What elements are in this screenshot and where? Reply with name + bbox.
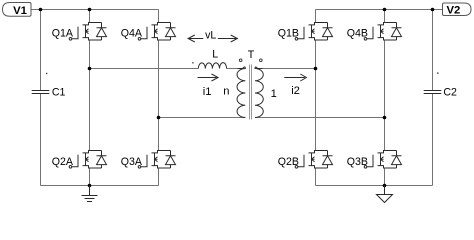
svg-text:C1: C1	[52, 87, 66, 99]
svg-text:Q1A: Q1A	[52, 27, 74, 39]
svg-text:Q3B: Q3B	[347, 156, 368, 168]
svg-text:Q2B: Q2B	[278, 156, 299, 168]
svg-text:Q4A: Q4A	[121, 27, 143, 39]
svg-text:V2: V2	[446, 5, 460, 17]
svg-text:Q2A: Q2A	[52, 156, 74, 168]
svg-text:Q1B: Q1B	[278, 27, 299, 39]
svg-text:n: n	[223, 86, 229, 98]
svg-text:vL: vL	[205, 29, 216, 41]
svg-text:1: 1	[271, 88, 277, 100]
svg-text:Q4B: Q4B	[347, 27, 368, 39]
svg-text:T: T	[248, 49, 255, 61]
svg-text:V1: V1	[13, 5, 27, 17]
svg-text:i1: i1	[203, 86, 212, 98]
svg-text:Q3A: Q3A	[121, 156, 143, 168]
svg-text:L: L	[212, 48, 218, 60]
svg-text:C2: C2	[443, 87, 457, 99]
svg-text:i2: i2	[291, 85, 300, 97]
